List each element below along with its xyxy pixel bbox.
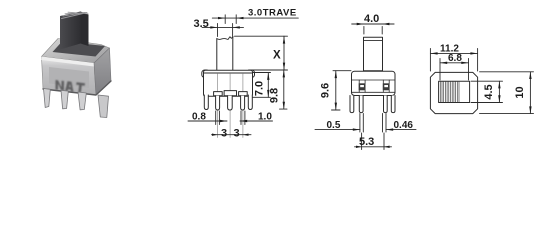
dimension 3.0 TRAVEL: line with ticks — [212, 15, 298, 24]
side view knob — [364, 37, 383, 71]
3D pictorial view: knob front face — [60, 12, 81, 50]
3D pictorial view: pin 3 — [78, 92, 86, 110]
front view terminal pin 3 — [239, 92, 248, 110]
3D pictorial view: body right side face — [94, 48, 111, 95]
dimension 4.0: line, arrows, extension lines — [352, 24, 394, 34]
front view knob stem with break lines — [217, 37, 233, 71]
side view leg 4 (back lug) — [391, 96, 395, 113]
top view body outline (chamfered corners) — [430, 72, 477, 113]
front view body inner top line — [204, 72, 253, 74]
svg-text:1.0: 1.0 — [258, 112, 272, 123]
svg-text:7.0: 7.0 — [254, 81, 266, 96]
svg-text:X: X — [273, 50, 281, 62]
svg-text:9.8: 9.8 — [269, 88, 281, 103]
top view knob serrations (hatched) — [440, 82, 459, 102]
svg-text:10: 10 — [514, 86, 526, 98]
3D pictorial view: body top face — [42, 39, 110, 64]
dimension 0.8: line, arrow, extension lines — [188, 111, 227, 125]
3D pictorial view: molded marks on front face — [56, 80, 86, 93]
3D pictorial view: slot recess on top face — [53, 42, 106, 57]
svg-text:3.5: 3.5 — [194, 18, 209, 30]
side view body — [352, 71, 396, 95]
dimension 5.3: line, arrows, extension lines — [355, 133, 392, 150]
side view leg 2 (terminal) — [359, 96, 363, 113]
dimension 6.8: line, arrows, extension lines — [440, 59, 469, 81]
side view leg 3 (terminal back) — [384, 96, 388, 113]
dimension 3.5: line, arrows, extension lines — [202, 24, 244, 37]
front view terminal pin 1 — [214, 92, 223, 110]
side view inner lines — [352, 80, 396, 92]
side view leg 1 (front lug) — [350, 96, 354, 113]
dimension 0.5: line, arrow, extension lines — [315, 114, 363, 133]
3D pictorial view: pin 2 — [61, 90, 68, 109]
svg-text:6.8: 6.8 — [448, 53, 462, 64]
svg-text:4.0: 4.0 — [364, 13, 379, 25]
3D pictorial view: right support lug — [98, 95, 109, 118]
front view body outer frame — [202, 70, 255, 96]
side view contact rivets — [359, 83, 390, 90]
front view right support lug — [248, 95, 252, 110]
top view slot — [439, 81, 470, 102]
svg-text:5.3: 5.3 — [359, 136, 374, 148]
3D pictorial view: knob right face — [81, 12, 89, 47]
svg-text:3: 3 — [234, 128, 240, 140]
dimension 9.6: line, arrows, extension lines — [332, 71, 352, 110]
front view left support lug — [204, 95, 208, 110]
dimension 7.0: line, arrows, extension lines — [253, 73, 271, 98]
3D pictorial view: front face top highlight — [42, 57, 95, 67]
svg-text:0.8: 0.8 — [192, 112, 206, 123]
dimension 3 3: line, arrows — [212, 134, 252, 136]
dimension X: extension lines — [235, 36, 288, 70]
svg-text:4.5: 4.5 — [483, 84, 495, 99]
front view pin centerlines — [218, 74, 243, 138]
svg-text:9.6: 9.6 — [320, 83, 332, 98]
svg-text:0.46: 0.46 — [394, 120, 414, 131]
svg-text:3: 3 — [221, 128, 227, 140]
dimension 4.5: line, arrows, extension lines — [471, 81, 503, 102]
3D pictorial view: pin 1 — [44, 89, 51, 108]
dimension 11.2: line, arrows, extension lines — [430, 49, 477, 72]
3D pictorial view: knob top serrations — [62, 12, 89, 18]
dimension 0.46: line, arrow, extension lines — [383, 114, 417, 133]
front view terminal pin 2 (center) — [224, 91, 236, 110]
3D pictorial view: body front face — [42, 57, 97, 96]
dimension 1.0: line, arrow, extension lines — [240, 111, 273, 125]
dimension 9.8: line, arrows, extension line — [280, 70, 288, 109]
3D pictorial view: frame opening on front face — [49, 67, 89, 88]
svg-text:3.0TRAVE: 3.0TRAVE — [248, 8, 297, 19]
svg-text:0.5: 0.5 — [327, 120, 341, 131]
3D pictorial view: body bottom shadow edge — [43, 81, 111, 95]
dimension 10: line, arrows, extension lines — [480, 72, 534, 114]
